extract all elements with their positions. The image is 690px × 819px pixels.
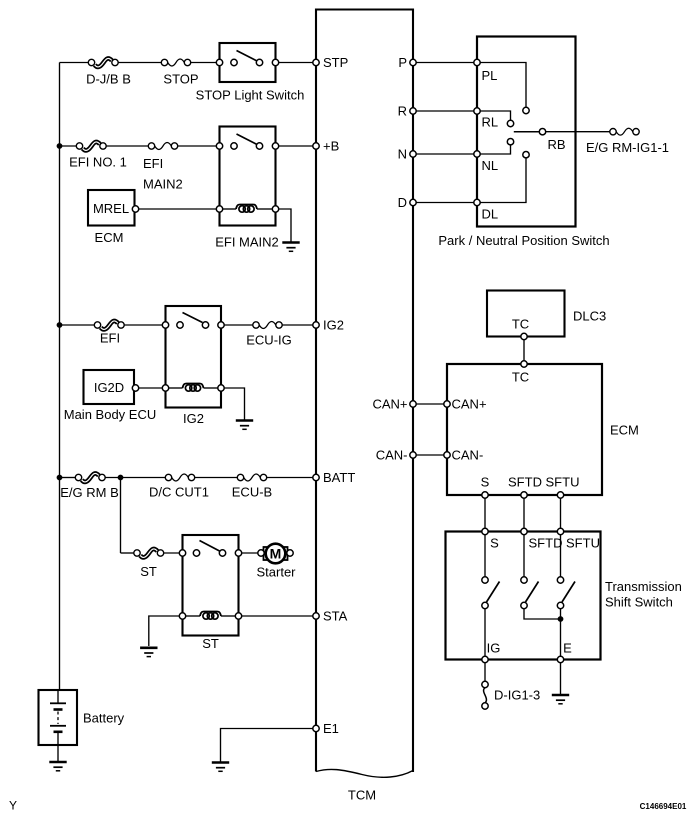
relay ST box xyxy=(183,535,239,636)
ground EFI MAIN2 relay xyxy=(282,243,299,252)
fusible link E/G RM-IG1-1 xyxy=(610,128,639,135)
terminal starter left xyxy=(258,550,264,556)
terminal D-IG1-3 top xyxy=(482,681,488,687)
svg-text:IG2D: IG2D xyxy=(94,380,124,395)
terminal S ECM xyxy=(482,492,488,498)
terminal SFTU ECM xyxy=(557,492,563,498)
terminal BATT xyxy=(313,474,319,480)
wire CAN+ TCM to ECM xyxy=(413,403,447,405)
svg-text:CAN+: CAN+ xyxy=(372,397,407,412)
svg-text:ST: ST xyxy=(202,636,219,651)
fusible link E/G RM B xyxy=(75,473,105,481)
transmission shift switch box xyxy=(446,532,601,660)
svg-text:CAN+: CAN+ xyxy=(452,397,487,412)
terminal P xyxy=(410,59,416,65)
terminal ST relay contact inner left xyxy=(193,550,199,556)
terminal STA xyxy=(313,613,319,619)
ground battery xyxy=(49,762,66,771)
terminal E1 xyxy=(313,725,319,731)
terminal NL xyxy=(474,151,480,157)
wire P to PNP switch xyxy=(413,62,477,64)
terminal R xyxy=(410,108,416,114)
wire DL to fixed contact xyxy=(480,158,526,203)
wire D to PNP switch xyxy=(413,202,477,204)
wire ST branch to ST fusible link xyxy=(121,552,134,554)
motor Starter brush box xyxy=(264,547,288,560)
terminal IG TSS bottom xyxy=(482,656,488,662)
wire ST relay to starter xyxy=(242,552,258,554)
terminal ST relay contact right xyxy=(235,550,241,556)
battery box xyxy=(39,690,78,745)
svg-text:TC: TC xyxy=(512,317,529,332)
svg-text:EFI: EFI xyxy=(143,156,163,171)
svg-text:MREL: MREL xyxy=(93,201,129,216)
terminal relay coil right xyxy=(272,206,278,212)
svg-text:IG2: IG2 xyxy=(323,318,344,333)
contact PL fixed xyxy=(523,107,529,113)
wire SFTU switch upper lead xyxy=(560,535,562,577)
svg-text:PL: PL xyxy=(482,68,498,83)
wire +B row from bus to fusible link xyxy=(60,145,77,147)
svg-text:SFTD: SFTD xyxy=(508,475,542,490)
svg-text:C146694E01: C146694E01 xyxy=(640,802,687,811)
PNP selector blade xyxy=(514,131,539,133)
wire MREL to relay coil xyxy=(139,208,220,210)
coil ST relay xyxy=(200,612,221,620)
contact SFTU lower xyxy=(557,602,563,608)
park neutral position switch box xyxy=(477,37,576,227)
ECM box xyxy=(447,364,602,495)
terminal SFTD ECM xyxy=(521,492,527,498)
wire EFI MAIN2 fuse to relay xyxy=(178,145,220,147)
wire SFTU lower to E xyxy=(560,609,562,660)
terminal N xyxy=(410,151,416,157)
battery cell 2 negative plate xyxy=(54,730,63,733)
svg-text:P: P xyxy=(398,55,407,70)
wire coil lead right xyxy=(204,387,218,389)
terminal TC DLC3 xyxy=(521,333,527,339)
wire TC DLC3 to ECM xyxy=(523,340,525,361)
terminal DL xyxy=(474,199,480,205)
svg-text:NL: NL xyxy=(482,158,499,173)
wire coil lead right xyxy=(257,208,272,210)
svg-text:SFTU: SFTU xyxy=(566,536,600,551)
wire fusible link to IG2 relay xyxy=(124,324,165,326)
svg-text:DLC3: DLC3 xyxy=(573,309,606,324)
svg-text:RB: RB xyxy=(547,137,565,152)
svg-text:S: S xyxy=(490,536,499,551)
svg-text:ST: ST xyxy=(140,564,157,579)
svg-text:Starter: Starter xyxy=(256,565,296,580)
svg-text:D-IG1-3: D-IG1-3 xyxy=(494,688,540,703)
svg-text:STA: STA xyxy=(323,609,348,624)
svg-text:TCM: TCM xyxy=(348,788,376,803)
svg-text:D: D xyxy=(398,195,407,210)
wire relay coil to ground xyxy=(279,209,291,242)
terminal stop light switch right xyxy=(272,59,278,65)
svg-text:R: R xyxy=(398,104,407,119)
relay EFI MAIN2 box xyxy=(220,127,276,226)
battery cell 2 positive plate xyxy=(50,725,66,727)
terminal RL xyxy=(474,108,480,114)
wire IG2D to IG2 relay coil xyxy=(139,387,166,389)
terminal IG2 xyxy=(313,322,319,328)
relay IG2 switch blade xyxy=(183,313,203,323)
ground E shift switch xyxy=(552,695,569,704)
svg-text:STP: STP xyxy=(323,55,348,70)
battery top lead xyxy=(57,690,59,703)
svg-text:E/G RM B: E/G RM B xyxy=(60,485,119,500)
ground ST relay xyxy=(140,648,157,657)
terminal D xyxy=(410,199,416,205)
wire S ECM to shift switch xyxy=(484,498,486,528)
ground IG2 relay xyxy=(236,421,253,430)
contact SFTU upper xyxy=(557,577,563,583)
terminal ST relay contact inner right xyxy=(219,550,225,556)
fuse ECU-IG xyxy=(253,322,282,329)
contact SFTD lower xyxy=(521,602,527,608)
wire NL to fixed contact xyxy=(480,145,510,154)
battery bottom lead xyxy=(57,733,59,745)
wire fusible link to STOP fuse xyxy=(118,62,161,64)
wire fusible link to EFI MAIN2 fuse xyxy=(106,145,148,147)
motor Starter M circle xyxy=(266,544,286,564)
battery cell 1 positive plate xyxy=(50,702,66,704)
wire stop light switch to TCM STP xyxy=(279,62,313,64)
svg-text:+B: +B xyxy=(323,139,339,154)
wire SFTU ECM to shift switch xyxy=(560,498,562,528)
wire IG2 row from bus to fusible link xyxy=(60,324,95,326)
svg-text:STOP Light Switch: STOP Light Switch xyxy=(196,88,305,103)
terminal PL xyxy=(474,59,480,65)
wire coil lead left xyxy=(186,615,200,617)
wire fusible link to D/C CUT1 fuse xyxy=(105,477,165,479)
svg-text:E: E xyxy=(563,641,572,656)
wire left power bus vertical xyxy=(59,63,61,691)
svg-text:ECU-B: ECU-B xyxy=(232,485,272,500)
wire ECU-IG fuse to TCM IG2 xyxy=(282,324,313,326)
svg-text:ECM: ECM xyxy=(95,230,124,245)
TCM torn bottom edge xyxy=(316,769,413,777)
wire S lower to IG xyxy=(484,609,486,660)
wire battery to ground xyxy=(57,745,59,761)
battery cell 1 negative plate xyxy=(54,708,63,711)
wire BATT row from bus to fusible link xyxy=(60,477,76,479)
terminal IG2 relay contact right xyxy=(218,322,224,328)
IG2D Main Body ECU box xyxy=(84,370,135,404)
svg-text:E/G RM-IG1-1: E/G RM-IG1-1 xyxy=(586,140,669,155)
fusible link EFI xyxy=(94,321,124,329)
svg-text:Shift Switch: Shift Switch xyxy=(605,595,673,610)
fusible link D-IG1-3 squiggle xyxy=(484,688,487,703)
wire ST relay coil to ground branch xyxy=(149,616,183,646)
terminal CAN+ TCM xyxy=(410,401,416,407)
svg-text:Battery: Battery xyxy=(83,711,125,726)
wire SFTD lower to E junction xyxy=(524,609,561,619)
terminal ST relay coil right xyxy=(235,613,241,619)
svg-text:EFI: EFI xyxy=(100,331,120,346)
MREL ECM box xyxy=(88,190,135,226)
wire R to PNP switch xyxy=(413,110,477,112)
coil IG2 relay xyxy=(183,384,204,392)
terminal IG2 relay coil right xyxy=(218,385,224,391)
contact S lower xyxy=(482,602,488,608)
wire relay to TCM +B xyxy=(279,145,313,147)
svg-text:Y: Y xyxy=(9,799,17,813)
wire E to ground xyxy=(560,663,562,694)
wire ST branch vertical xyxy=(120,478,122,554)
relay IG2 box xyxy=(166,306,222,408)
contact S upper xyxy=(482,577,488,583)
wire IG down xyxy=(484,663,486,682)
svg-text:Transmission: Transmission xyxy=(605,579,682,594)
junction bus to BATT row xyxy=(57,475,63,481)
stop light switch box xyxy=(220,43,276,82)
wire coil lead left xyxy=(169,387,183,389)
fusible link ST xyxy=(134,549,164,557)
svg-text:Park / Neutral Position Switch: Park / Neutral Position Switch xyxy=(438,233,609,248)
svg-text:BATT: BATT xyxy=(323,470,355,485)
switch SFTD blade xyxy=(526,582,539,603)
junction bus to +B row xyxy=(57,143,63,149)
fuse ECU-B xyxy=(237,474,266,481)
svg-text:IG: IG xyxy=(487,641,501,656)
terminal stop light switch left xyxy=(216,59,222,65)
svg-text:MAIN2: MAIN2 xyxy=(143,177,183,192)
wire STOP fuse to stop light switch xyxy=(191,62,220,64)
svg-text:TC: TC xyxy=(512,370,529,385)
wire ST fusible link to ST relay xyxy=(164,552,183,554)
terminal IG2 relay contact inner left xyxy=(177,322,183,328)
wire CAN- TCM to ECM xyxy=(413,454,447,456)
contact DL fixed xyxy=(523,152,529,158)
svg-text:EFI NO. 1: EFI NO. 1 xyxy=(69,155,127,170)
wire D/C CUT1 to ECU-B fuse xyxy=(195,477,238,479)
terminal IG2D output xyxy=(132,385,138,391)
wire N to PNP switch xyxy=(413,153,477,155)
junction BATT row to ST branch xyxy=(118,475,124,481)
wire PL to fixed contact xyxy=(480,63,526,108)
terminal SFTU TSS top xyxy=(557,528,563,534)
fuse STOP xyxy=(161,59,190,66)
wire IG2 relay coil to ground xyxy=(224,388,244,420)
contact SFTD upper xyxy=(521,577,527,583)
junction SFTD SFTU common xyxy=(558,616,564,622)
wire E1 to ground branch xyxy=(221,729,313,762)
switch SFTU blade xyxy=(562,582,575,603)
terminal IG2 relay contact inner right xyxy=(202,322,208,328)
fusible link D-J/B B xyxy=(88,58,118,66)
terminal relay contact inner right xyxy=(256,143,262,149)
terminal IG2 relay contact left xyxy=(162,322,168,328)
terminal IG2 relay coil left xyxy=(162,385,168,391)
relay EFI MAIN2 switch blade xyxy=(237,134,258,145)
relay ST switch blade xyxy=(200,541,220,552)
svg-text:N: N xyxy=(398,147,407,162)
terminal stop light switch inner left xyxy=(231,59,237,65)
fuse D/C CUT1 xyxy=(165,474,194,481)
svg-text:D/C CUT1: D/C CUT1 xyxy=(149,485,209,500)
terminal relay contact inner left xyxy=(231,143,237,149)
svg-text:ECU-IG: ECU-IG xyxy=(246,333,292,348)
terminal ST relay contact left xyxy=(179,550,185,556)
terminal STP xyxy=(313,59,319,65)
TCM module outline xyxy=(316,10,413,773)
svg-text:M: M xyxy=(270,546,282,562)
wire RL to fixed contact xyxy=(480,111,510,120)
battery dashed middle link xyxy=(57,712,59,725)
terminal relay contact right xyxy=(272,143,278,149)
svg-text:STOP: STOP xyxy=(163,72,198,87)
terminal D-IG1-3 bottom xyxy=(482,703,488,709)
svg-text:SFTU: SFTU xyxy=(546,475,580,490)
terminal stop light switch inner right xyxy=(256,59,262,65)
wire SFTD switch upper lead xyxy=(523,535,525,577)
fusible link EFI NO. 1 xyxy=(76,142,106,150)
svg-text:ECM: ECM xyxy=(610,423,639,438)
terminal CAN+ ECM xyxy=(444,401,450,407)
wire ST relay coil to TCM STA xyxy=(242,615,313,617)
ground E1 xyxy=(212,763,229,772)
svg-text:D-J/B B: D-J/B B xyxy=(86,72,131,87)
contact NL fixed xyxy=(507,139,513,145)
wire S switch upper lead xyxy=(484,535,486,577)
wire ECU-B fuse to TCM BATT xyxy=(267,477,313,479)
terminal ST relay coil left xyxy=(179,613,185,619)
terminal starter right xyxy=(287,550,293,556)
terminal +B xyxy=(313,143,319,149)
terminal SFTD TSS top xyxy=(521,528,527,534)
wire SFTD ECM to shift switch xyxy=(523,498,525,528)
wire relay to ECU-IG fuse xyxy=(224,324,253,326)
coil EFI MAIN2 relay xyxy=(236,205,257,213)
wire RB out of PNP switch xyxy=(546,131,610,133)
terminal S TSS top xyxy=(482,528,488,534)
svg-text:RL: RL xyxy=(482,115,499,130)
wire STP row from bus to fusible link xyxy=(60,62,89,64)
switch S blade xyxy=(487,582,500,603)
svg-text:Main Body ECU: Main Body ECU xyxy=(64,407,156,422)
stop light switch blade xyxy=(237,51,258,62)
wire coil lead right xyxy=(221,615,235,617)
terminal relay contact left xyxy=(216,143,222,149)
terminal relay coil left xyxy=(216,206,222,212)
DLC3 box xyxy=(487,291,565,337)
terminal E TSS bottom xyxy=(557,656,563,662)
terminal TC ECM xyxy=(521,361,527,367)
svg-text:SFTD: SFTD xyxy=(529,536,563,551)
svg-text:EFI MAIN2: EFI MAIN2 xyxy=(215,235,279,250)
svg-text:IG2: IG2 xyxy=(183,411,204,426)
contact RL fixed xyxy=(507,120,513,126)
svg-text:E1: E1 xyxy=(323,721,339,736)
junction bus to IG2 row xyxy=(57,322,63,328)
terminal CAN- ECM xyxy=(444,452,450,458)
svg-text:S: S xyxy=(481,475,490,490)
wire coil lead left xyxy=(223,208,236,210)
svg-text:DL: DL xyxy=(482,207,499,222)
svg-text:CAN-: CAN- xyxy=(376,448,408,463)
contact RB moving xyxy=(539,129,545,135)
terminal CAN- TCM xyxy=(410,452,416,458)
fuse EFI MAIN2 xyxy=(148,143,177,150)
svg-text:CAN-: CAN- xyxy=(452,448,484,463)
terminal MREL output xyxy=(132,206,138,212)
